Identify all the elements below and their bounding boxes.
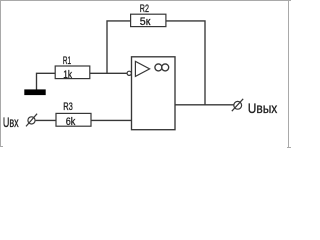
svg-text:5к: 5к	[140, 16, 151, 28]
wire: R3 to op-amp lower input	[91, 119, 132, 121]
wire: input terminal to R3	[36, 119, 56, 121]
svg-text:1k: 1k	[63, 69, 72, 81]
svg-text:Uвх: Uвх	[3, 115, 19, 130]
input terminal (Uвх) circle with slash	[28, 117, 35, 124]
border frame	[0, 0, 291, 148]
wire: R1 to inverting input (junction at x=107)	[90, 72, 127, 74]
resistor R3	[56, 113, 91, 126]
output terminal (Uвых) circle with slash	[234, 101, 242, 109]
resistor R2	[131, 14, 166, 26]
svg-text:R2: R2	[140, 3, 149, 15]
resistor R1	[55, 66, 90, 79]
wire: ground branch to R1 (horizontal + vertical down)	[37, 73, 56, 90]
svg-text:R1: R1	[63, 55, 71, 67]
op-amp inverting input bubble	[127, 71, 131, 75]
wire: op-amp output to output terminal	[175, 104, 234, 106]
svg-text:Uвых: Uвых	[248, 101, 278, 116]
wire: feedback left branch up to R2	[107, 21, 131, 73]
wire: R2 right to output node (down to output wire)	[166, 21, 205, 105]
op-amp triangle symbol	[135, 61, 149, 76]
ground	[24, 89, 45, 95]
op-amp infinity gain symbol	[155, 64, 162, 71]
svg-text:R3: R3	[63, 101, 73, 113]
op-amp U1 body	[132, 57, 176, 130]
svg-text:6k: 6k	[66, 116, 76, 128]
